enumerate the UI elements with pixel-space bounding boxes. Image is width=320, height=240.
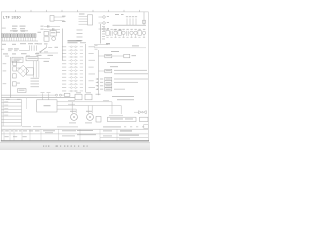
module A2 xyxy=(26,56,38,60)
caption under table xyxy=(22,125,31,128)
frame right border xyxy=(147,12,149,141)
component K4 xyxy=(18,89,26,93)
frame left border xyxy=(0,12,2,141)
labels row D2 xyxy=(3,53,8,54)
vertical bus x85 xyxy=(84,44,86,93)
contact row 1 xyxy=(44,25,60,27)
contactor box beside diamond xyxy=(27,68,34,75)
switch S10 lever xyxy=(41,47,47,51)
wire drops right xyxy=(111,102,113,114)
switch stub xyxy=(46,45,48,48)
tap labels xyxy=(126,16,137,17)
component box C1 xyxy=(44,31,48,35)
wire under band xyxy=(94,43,108,45)
label K1 xyxy=(79,14,85,15)
wire shelf right xyxy=(94,47,146,49)
labels near bus xyxy=(115,14,119,15)
caption bottom centre xyxy=(57,125,78,128)
tick labels above title block right xyxy=(124,125,144,128)
module A1 xyxy=(12,57,23,62)
note long text 2 xyxy=(114,72,148,75)
relay K2a xyxy=(13,61,17,65)
labels above motors xyxy=(70,110,76,113)
wire shelf centre 2 xyxy=(36,57,50,59)
small box right of motors xyxy=(96,116,101,122)
wire drops to lower area xyxy=(34,61,39,78)
labels at wire ends xyxy=(62,16,66,17)
revision table xyxy=(1,99,21,126)
label above strip xyxy=(109,114,123,117)
note text row 2 xyxy=(110,65,118,68)
inline fuse on bus xyxy=(64,93,70,96)
terminal strip X5 xyxy=(108,117,137,121)
vertical bus centre xyxy=(62,29,64,61)
title block mid line xyxy=(1,133,148,135)
svg-text:LTF 3030: LTF 3030 xyxy=(3,15,21,19)
motor M2 leads xyxy=(87,106,89,114)
label row xyxy=(44,60,50,63)
title block texts row1 xyxy=(2,130,132,135)
title block texts row2 xyxy=(5,135,140,140)
wire list header xyxy=(68,40,82,41)
switch T mark xyxy=(48,47,52,49)
relay output rows xyxy=(95,77,148,91)
vertical bus x98 xyxy=(97,50,99,95)
component band top right xyxy=(106,29,146,38)
frame top border xyxy=(1,11,149,13)
motor M2 xyxy=(87,114,94,121)
wire shelf centre xyxy=(36,52,58,54)
wire m3 xyxy=(57,108,76,110)
terminal circles X2 xyxy=(99,16,110,31)
label left margin xyxy=(2,28,6,29)
left margin labels mid xyxy=(3,62,7,65)
label right above shelf xyxy=(132,44,139,47)
note text row 1 xyxy=(107,61,131,64)
title block top line xyxy=(1,128,148,130)
caption under strip xyxy=(103,126,121,127)
motor M1 xyxy=(71,114,78,121)
supply bus left xyxy=(10,57,12,97)
bus labels xyxy=(6,98,10,101)
page background xyxy=(0,0,150,150)
controller box A3 xyxy=(37,100,57,112)
switch S1 label xyxy=(8,48,13,49)
wire m2 xyxy=(57,105,121,107)
wire m1 xyxy=(57,101,112,103)
title block bottom line xyxy=(1,140,149,142)
caption under right section xyxy=(112,96,134,97)
labels below motors xyxy=(69,121,76,124)
contact row 2 xyxy=(44,28,60,30)
wire xyxy=(54,19,65,21)
row relay K5 xyxy=(98,55,104,57)
labels centre cluster xyxy=(38,31,42,34)
wire bus under pins xyxy=(1,40,38,42)
box B1 xyxy=(75,94,82,100)
terminal circles on bus xyxy=(56,94,58,96)
labels above boxes xyxy=(76,91,81,94)
net labels row A xyxy=(12,26,18,27)
vertical bus x100 xyxy=(100,24,102,44)
horn H1 xyxy=(139,111,142,114)
bus tap labels xyxy=(102,26,105,39)
wire label right xyxy=(103,99,109,102)
pin stubs K1 xyxy=(79,16,88,24)
switch S0 label xyxy=(1,48,4,51)
node marks under bus xyxy=(114,29,117,30)
caption top bottom-right xyxy=(117,99,134,100)
dark dash xyxy=(106,43,110,44)
wire segment xyxy=(19,50,29,52)
bus wire lower 2 xyxy=(1,97,75,99)
component on riser xyxy=(143,20,146,23)
labels under cluster xyxy=(38,42,43,45)
wire riser to frame xyxy=(143,12,145,25)
row relay K6 xyxy=(98,70,104,72)
toolbar icons xyxy=(43,145,88,147)
wire m2 label xyxy=(68,103,75,106)
labels row D3 xyxy=(5,56,9,57)
component box C2 xyxy=(50,30,56,36)
labels left of shelf xyxy=(95,44,98,47)
frame column ticks xyxy=(16,10,140,12)
switch S2 label xyxy=(14,48,19,49)
wire link mid xyxy=(37,94,55,96)
risers into A3 xyxy=(42,93,44,99)
motor M1 leads xyxy=(71,102,73,114)
terminal pin row X1 xyxy=(1,30,36,41)
relay K1 xyxy=(88,15,93,25)
wire tag rows xyxy=(31,78,40,87)
labels row D1 xyxy=(2,44,6,45)
tap stubs on bus xyxy=(127,18,136,25)
diamond cross xyxy=(20,68,26,74)
bus wire lower 1 xyxy=(1,94,37,96)
connector X10 xyxy=(50,16,54,22)
wire stub near table xyxy=(26,98,28,109)
wire m1 label xyxy=(68,99,75,102)
relay K2d xyxy=(12,82,16,86)
box B2 xyxy=(85,94,92,100)
viewer toolbar strip xyxy=(0,143,150,150)
wire list rows xyxy=(62,46,95,92)
component box C3 xyxy=(44,37,49,41)
tick cluster right of switches xyxy=(30,45,37,50)
title block mid line right xyxy=(100,136,148,138)
label above right section xyxy=(111,51,119,52)
labels under shelf xyxy=(37,54,42,57)
row component box xyxy=(124,54,130,58)
wire xyxy=(54,16,65,18)
box right of strip xyxy=(140,117,149,121)
wire to component xyxy=(112,55,124,57)
relay K2c xyxy=(12,74,16,78)
component circle C4 xyxy=(52,37,56,41)
title block dividers xyxy=(4,129,117,140)
relay K2b xyxy=(13,67,17,71)
note long text 1 xyxy=(114,69,147,72)
bus wire top right xyxy=(113,24,147,26)
wire to horn xyxy=(134,111,139,113)
small box above title block corner xyxy=(144,125,148,129)
label column x78 xyxy=(77,30,83,41)
wire link 2 xyxy=(62,94,65,96)
bridge rectifier V1 diamond xyxy=(17,65,29,77)
